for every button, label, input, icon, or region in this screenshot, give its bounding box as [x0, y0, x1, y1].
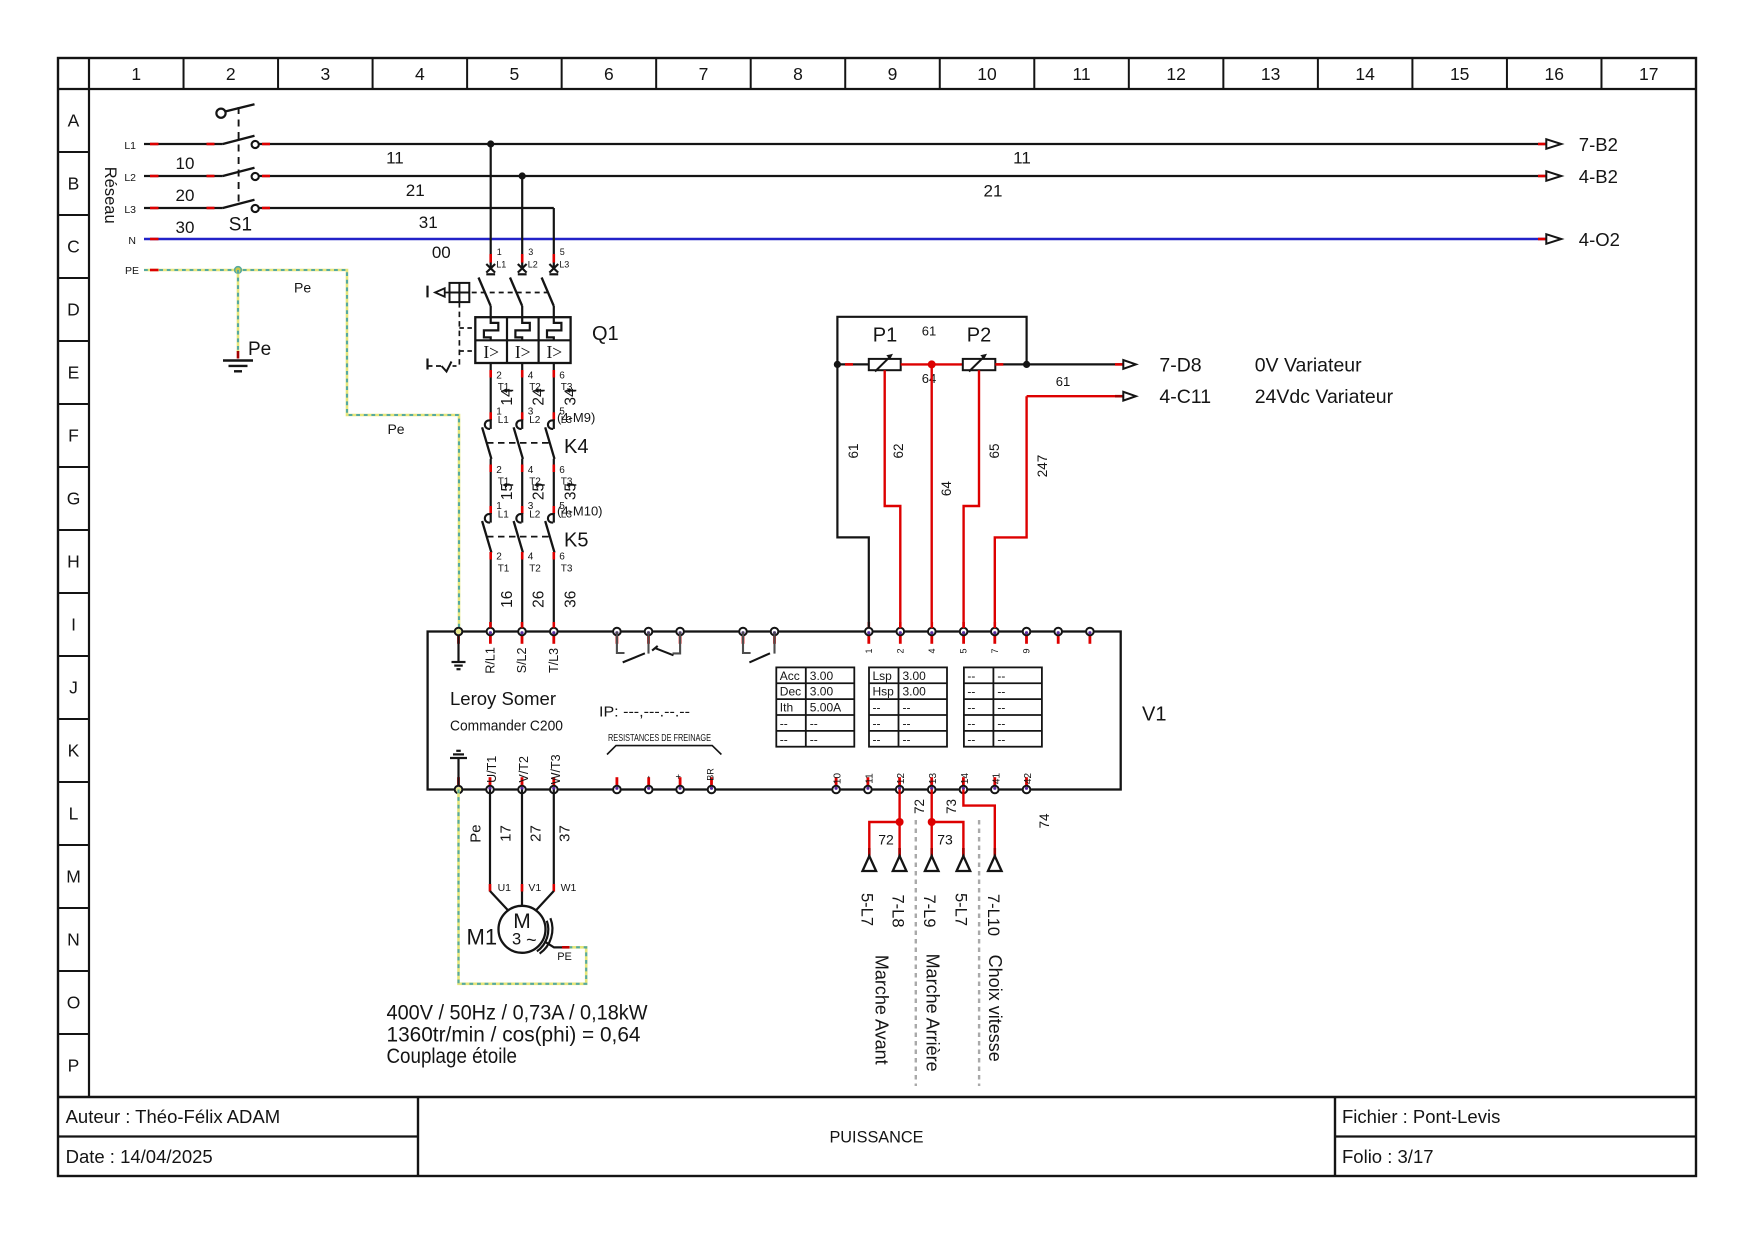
- svg-text:P2: P2: [967, 325, 991, 347]
- svg-text:Q1: Q1: [592, 323, 619, 345]
- svg-text:I>: I>: [546, 342, 562, 362]
- svg-text:--: --: [903, 701, 911, 715]
- svg-text:20: 20: [176, 186, 195, 205]
- svg-text:14: 14: [960, 773, 971, 785]
- svg-text:15: 15: [1450, 64, 1469, 84]
- svg-text:4: 4: [528, 465, 534, 476]
- svg-text:P: P: [68, 1056, 80, 1076]
- svg-text:--: --: [997, 716, 1005, 730]
- svg-text:L2: L2: [529, 415, 541, 426]
- svg-text:V1: V1: [1142, 704, 1166, 726]
- svg-text:3.00: 3.00: [903, 685, 927, 699]
- svg-text:37: 37: [557, 825, 574, 842]
- svg-text:--: --: [873, 732, 881, 746]
- svg-text:14: 14: [1355, 64, 1375, 84]
- svg-text:S/L2: S/L2: [515, 647, 529, 673]
- svg-text:2: 2: [496, 552, 502, 563]
- svg-text:D: D: [67, 300, 80, 320]
- svg-text:T3: T3: [561, 564, 573, 575]
- svg-text:4: 4: [415, 64, 425, 84]
- svg-text:W1: W1: [561, 882, 577, 894]
- svg-text:+: +: [674, 774, 684, 779]
- svg-text:61: 61: [846, 443, 861, 458]
- svg-text:P1: P1: [873, 325, 897, 347]
- svg-text:41: 41: [991, 773, 1002, 785]
- svg-text:1: 1: [131, 64, 141, 84]
- svg-text:6: 6: [559, 465, 565, 476]
- svg-text:PE: PE: [125, 265, 139, 277]
- svg-text:L1: L1: [124, 140, 136, 152]
- svg-text:0V Variateur: 0V Variateur: [1255, 354, 1362, 376]
- svg-text:J: J: [69, 678, 78, 698]
- svg-text:42: 42: [1023, 773, 1034, 785]
- svg-text:L: L: [69, 804, 79, 824]
- svg-text:11: 11: [864, 773, 875, 784]
- svg-text:5: 5: [510, 64, 520, 84]
- svg-text:U1: U1: [498, 882, 512, 894]
- svg-text:U/T1: U/T1: [485, 756, 499, 783]
- svg-text:--: --: [997, 701, 1005, 715]
- svg-text:M1: M1: [467, 925, 498, 950]
- svg-text:3: 3: [528, 247, 533, 257]
- svg-text:3.00: 3.00: [810, 669, 834, 683]
- svg-text:T2: T2: [529, 564, 541, 575]
- svg-text:3.00: 3.00: [810, 685, 834, 699]
- svg-text:1360tr/min / cos(phi) = 0,64: 1360tr/min / cos(phi) = 0,64: [387, 1023, 641, 1046]
- svg-text:1: 1: [864, 648, 874, 653]
- svg-text:4-C11: 4-C11: [1159, 386, 1211, 408]
- svg-text:L3: L3: [559, 260, 569, 270]
- svg-text:I>: I>: [515, 342, 531, 362]
- svg-text:2: 2: [226, 64, 236, 84]
- svg-text:T1: T1: [498, 564, 510, 575]
- svg-text:--: --: [967, 669, 975, 683]
- svg-text:30: 30: [176, 218, 195, 237]
- svg-text:-: -: [644, 776, 654, 779]
- svg-text:--: --: [873, 701, 881, 715]
- svg-text:13: 13: [928, 773, 939, 785]
- svg-text:400V / 50Hz / 0,73A / 0,18kW: 400V / 50Hz / 0,73A / 0,18kW: [387, 1001, 648, 1024]
- svg-text:36: 36: [562, 591, 579, 608]
- svg-text:--: --: [780, 732, 788, 746]
- svg-text:Marche Avant: Marche Avant: [872, 955, 892, 1065]
- svg-text:Réseau: Réseau: [101, 167, 119, 224]
- svg-text:8: 8: [793, 64, 803, 84]
- svg-text:C: C: [67, 237, 80, 257]
- svg-text:O: O: [67, 993, 81, 1013]
- svg-text:L2: L2: [528, 260, 538, 270]
- svg-text:--: --: [810, 732, 818, 746]
- svg-text:72: 72: [878, 831, 894, 847]
- svg-text:N: N: [128, 235, 136, 247]
- svg-text:Date : 14/04/2025: Date : 14/04/2025: [66, 1146, 213, 1167]
- svg-text:5.00A: 5.00A: [810, 701, 841, 715]
- svg-text:L1: L1: [498, 510, 510, 521]
- svg-text:Dec: Dec: [780, 685, 801, 699]
- svg-text:73: 73: [937, 831, 953, 847]
- svg-text:BR: BR: [706, 768, 716, 781]
- svg-text:64: 64: [939, 481, 954, 497]
- svg-text:RESISTANCES DE FREINAGE: RESISTANCES DE FREINAGE: [608, 733, 711, 744]
- svg-text:21: 21: [406, 181, 425, 200]
- svg-text:Pe: Pe: [387, 421, 404, 437]
- svg-text:16: 16: [1544, 64, 1563, 84]
- svg-text:I: I: [71, 615, 76, 635]
- svg-text:5-L7: 5-L7: [858, 893, 876, 926]
- svg-text:1: 1: [497, 247, 502, 257]
- svg-text:73: 73: [944, 799, 959, 814]
- svg-text:7-D8: 7-D8: [1159, 354, 1201, 376]
- svg-text:G: G: [67, 489, 81, 509]
- svg-text:4: 4: [528, 371, 534, 382]
- svg-text:6: 6: [559, 552, 565, 563]
- svg-text:5-L7: 5-L7: [952, 893, 970, 926]
- svg-text:PUISSANCE: PUISSANCE: [829, 1129, 923, 1147]
- svg-text:W/T3: W/T3: [549, 754, 563, 784]
- svg-text:--: --: [780, 716, 788, 730]
- svg-text:2: 2: [496, 465, 502, 476]
- svg-text:6: 6: [559, 371, 565, 382]
- svg-text:Choix vitesse: Choix vitesse: [985, 955, 1005, 1062]
- svg-text:12: 12: [896, 773, 907, 785]
- svg-text:00: 00: [432, 243, 451, 262]
- svg-text:F: F: [68, 426, 79, 446]
- svg-text:--: --: [810, 716, 818, 730]
- svg-text:K4: K4: [564, 436, 588, 458]
- svg-text:E: E: [68, 363, 80, 383]
- svg-text:~: ~: [526, 930, 537, 950]
- svg-text:7-L9: 7-L9: [920, 894, 938, 927]
- svg-text:5: 5: [959, 648, 969, 653]
- svg-text:7: 7: [990, 648, 1000, 653]
- svg-text:10: 10: [977, 64, 997, 84]
- svg-text:Leroy Somer: Leroy Somer: [450, 688, 556, 709]
- svg-text:3: 3: [512, 931, 521, 949]
- svg-text:7-L8: 7-L8: [889, 894, 907, 927]
- svg-text:--: --: [967, 685, 975, 699]
- svg-text:4: 4: [927, 648, 937, 653]
- svg-text:--: --: [967, 701, 975, 715]
- svg-text:V/T2: V/T2: [517, 756, 531, 782]
- svg-text:(4-M9): (4-M9): [557, 410, 595, 425]
- svg-text:31: 31: [419, 213, 438, 232]
- svg-text:64: 64: [922, 371, 936, 386]
- svg-text:247: 247: [1035, 455, 1050, 478]
- svg-text:2: 2: [496, 371, 502, 382]
- svg-text:4: 4: [528, 552, 534, 563]
- svg-text:--: --: [903, 732, 911, 746]
- svg-text:10: 10: [176, 154, 195, 173]
- svg-text:4-O2: 4-O2: [1579, 229, 1620, 250]
- svg-text:--: --: [967, 732, 975, 746]
- svg-text:--: --: [997, 732, 1005, 746]
- svg-text:10: 10: [833, 773, 844, 785]
- svg-text:PE: PE: [557, 951, 572, 963]
- svg-text:Ith: Ith: [780, 701, 793, 715]
- svg-text:L3: L3: [124, 204, 136, 216]
- svg-text:Couplage étoile: Couplage étoile: [387, 1045, 518, 1068]
- svg-text:IP: ---,---.--.--: IP: ---,---.--.--: [599, 705, 690, 721]
- svg-text:11: 11: [1013, 149, 1031, 168]
- svg-text:V1: V1: [528, 882, 541, 894]
- svg-text:R/L1: R/L1: [483, 647, 497, 673]
- svg-text:65: 65: [987, 443, 1002, 458]
- svg-text:9: 9: [1022, 648, 1032, 653]
- svg-text:2: 2: [895, 648, 905, 653]
- svg-text:4-B2: 4-B2: [1579, 166, 1618, 187]
- svg-text:H: H: [67, 552, 80, 572]
- svg-text:3: 3: [320, 64, 330, 84]
- svg-text:A: A: [68, 111, 80, 131]
- svg-text:T/L3: T/L3: [547, 648, 561, 673]
- svg-text:13: 13: [1261, 64, 1280, 84]
- svg-text:L2: L2: [529, 510, 541, 521]
- svg-text:6: 6: [604, 64, 614, 84]
- svg-text:7-L10: 7-L10: [984, 894, 1002, 936]
- svg-text:B: B: [68, 174, 80, 194]
- svg-text:5: 5: [560, 247, 565, 257]
- svg-text:Auteur : Théo-Félix ADAM: Auteur : Théo-Félix ADAM: [66, 1106, 281, 1127]
- svg-text:K: K: [68, 741, 80, 761]
- svg-text:Commander C200: Commander C200: [450, 718, 563, 735]
- svg-text:24Vdc Variateur: 24Vdc Variateur: [1255, 386, 1394, 408]
- svg-text:74: 74: [1037, 813, 1052, 829]
- svg-text:S1: S1: [229, 214, 252, 235]
- svg-text:Folio : 3/17: Folio : 3/17: [1342, 1146, 1434, 1167]
- svg-text:--: --: [997, 685, 1005, 699]
- svg-text:12: 12: [1166, 64, 1185, 84]
- svg-text:9: 9: [888, 64, 898, 84]
- svg-text:Lsp: Lsp: [873, 669, 893, 683]
- svg-text:27: 27: [528, 825, 545, 842]
- svg-text:61: 61: [922, 324, 936, 339]
- svg-text:21: 21: [984, 182, 1003, 201]
- svg-text:L2: L2: [124, 172, 136, 184]
- svg-text:16: 16: [499, 591, 516, 608]
- svg-text:3.00: 3.00: [903, 669, 927, 683]
- svg-text:11: 11: [1072, 64, 1090, 84]
- svg-text:K5: K5: [564, 530, 588, 552]
- svg-text:Fichier : Pont-Levis: Fichier : Pont-Levis: [1342, 1106, 1500, 1127]
- svg-text:Pe: Pe: [248, 339, 271, 360]
- svg-text:Pe: Pe: [468, 824, 485, 842]
- svg-text:L1: L1: [496, 260, 506, 270]
- svg-text:7-B2: 7-B2: [1579, 134, 1618, 155]
- svg-text:--: --: [903, 716, 911, 730]
- svg-text:17: 17: [1639, 64, 1658, 84]
- svg-text:Hsp: Hsp: [873, 685, 895, 699]
- svg-text:--: --: [997, 669, 1005, 683]
- svg-text:(4-M10): (4-M10): [557, 504, 603, 519]
- svg-text:--: --: [873, 716, 881, 730]
- svg-text:72: 72: [912, 799, 927, 814]
- svg-text:L1: L1: [498, 415, 510, 426]
- svg-text:7: 7: [699, 64, 709, 84]
- svg-text:N: N: [67, 930, 80, 950]
- svg-text:61: 61: [1056, 374, 1070, 389]
- svg-text:17: 17: [497, 825, 514, 842]
- svg-text:62: 62: [891, 443, 906, 458]
- svg-text:26: 26: [531, 591, 548, 608]
- svg-text:M: M: [66, 867, 81, 887]
- svg-text:11: 11: [386, 149, 404, 168]
- svg-text:Acc: Acc: [780, 669, 800, 683]
- svg-text:Marche Arrière: Marche Arrière: [922, 954, 942, 1072]
- svg-text:I>: I>: [483, 342, 499, 362]
- svg-text:Pe: Pe: [294, 280, 311, 296]
- svg-text:--: --: [967, 716, 975, 730]
